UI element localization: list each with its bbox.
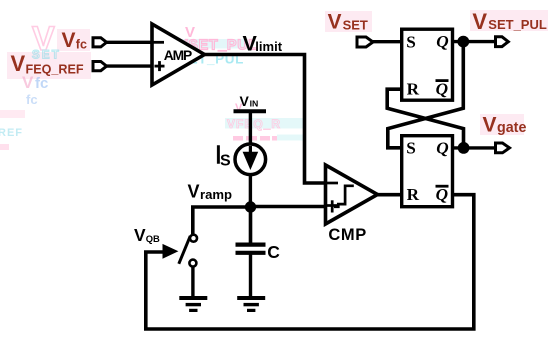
ground (capacitor) — [237, 298, 265, 310]
port V_fc — [93, 38, 107, 47]
op-amp AMP — [152, 24, 205, 85]
svg-text:V: V — [472, 9, 487, 34]
svg-text:C: C — [267, 242, 280, 262]
wire Vramp node left and down to switch — [193, 207, 251, 234]
label V_IN — [240, 93, 259, 109]
SR latch U1 — [402, 29, 453, 100]
wire V_SET to latch1 S — [373, 40, 401, 43]
svg-text:CMP: CMP — [328, 226, 366, 244]
svg-text:R: R — [407, 80, 420, 99]
wire current source to Vramp node — [249, 175, 252, 208]
arrowhead VQB — [163, 244, 179, 259]
svg-text:V: V — [134, 225, 146, 245]
svg-text:SET: SET — [343, 18, 368, 33]
svg-text:V: V — [483, 113, 497, 136]
VIN supply bar — [234, 109, 267, 113]
switch top contact — [190, 235, 197, 242]
current source I_S — [235, 144, 266, 175]
svg-text:V: V — [328, 10, 342, 33]
minus marker — [154, 41, 165, 44]
switch blade — [179, 236, 191, 264]
ghost smears left edge — [0, 110, 25, 150]
ghost text artifacts Vfc blue — [22, 73, 48, 107]
wire latch1 Q to port — [453, 40, 495, 43]
wire capacitor to ground — [249, 253, 252, 297]
svg-text:FEQ_REF: FEQ_REF — [26, 62, 84, 76]
svg-text:fc: fc — [35, 75, 48, 92]
port V_gate — [496, 143, 510, 153]
capacitor C — [236, 243, 266, 247]
svg-text:S: S — [406, 32, 416, 51]
svg-text:AMP: AMP — [164, 48, 192, 63]
label I_S — [215, 140, 231, 170]
switch bottom contact — [189, 260, 196, 267]
wire V_limit: AMP out to CMP minus input — [204, 55, 327, 184]
svg-text:Q: Q — [436, 32, 448, 51]
node junction dot Q2 — [458, 142, 470, 154]
svg-text:S: S — [406, 139, 416, 158]
ghost text artifacts top-left — [32, 20, 61, 62]
label V_gate — [483, 113, 527, 136]
wire latch2 Qbar feedback loop — [146, 195, 474, 329]
SR latch U2 — [402, 136, 453, 207]
svg-text:S: S — [220, 152, 231, 169]
svg-text:V: V — [62, 29, 76, 52]
hysteresis symbol — [334, 186, 354, 207]
plus marker — [327, 204, 337, 207]
svg-text:R: R — [407, 185, 420, 204]
port V_SET — [357, 37, 373, 47]
svg-text:V: V — [240, 93, 250, 109]
ghost band near VIN — [225, 102, 305, 141]
pink halo behind red labels — [57, 29, 90, 51]
svg-text:Q: Q — [436, 185, 448, 204]
svg-text:Q: Q — [436, 79, 448, 98]
svg-text:QB: QB — [146, 233, 160, 244]
wire latch1 R from cross — [387, 89, 463, 148]
label V_FEQ_REF — [11, 51, 84, 76]
svg-text:SET: SET — [32, 50, 61, 62]
wire V_FEQ_REF to AMP — [107, 64, 153, 67]
svg-text:fc: fc — [76, 38, 87, 52]
wire Vramp node to CMP plus input — [251, 205, 328, 209]
label V_ramp — [188, 181, 233, 202]
wire CMP out to latch2 R — [377, 193, 401, 197]
svg-text:ramp: ramp — [200, 187, 232, 202]
wire switch to ground — [191, 267, 194, 297]
svg-text:IN: IN — [250, 99, 259, 109]
port V_SET_PUL — [496, 37, 509, 47]
svg-text:SET_PUL: SET_PUL — [488, 17, 547, 32]
node junction dot Q1 — [457, 36, 469, 48]
svg-text:Q: Q — [436, 138, 448, 157]
wire latch1 Q down cross to latch2 S — [388, 42, 464, 148]
label V_QB — [134, 225, 160, 245]
wire V_fc to AMP — [107, 41, 153, 44]
plus marker — [155, 65, 165, 68]
svg-text:REF: REF — [0, 127, 23, 139]
svg-text:V: V — [11, 51, 26, 76]
port V_FEQ_REF — [93, 62, 107, 71]
svg-text:VFEQ_R: VFEQ_R — [227, 117, 281, 131]
minus marker — [327, 182, 338, 185]
wire latch2 Q to port — [453, 146, 495, 149]
label V_fc — [62, 29, 87, 52]
node V_ramp junction dot — [245, 201, 256, 212]
label V_SET — [328, 10, 368, 33]
svg-text:limit: limit — [255, 39, 282, 54]
svg-text:gate: gate — [497, 120, 526, 136]
svg-text:V: V — [188, 181, 200, 201]
ground (switch) — [179, 298, 207, 310]
ghost text artifacts near AMP output — [175, 24, 258, 67]
wire Vramp node down to capacitor — [249, 207, 253, 243]
label V_SET_PUL — [472, 9, 546, 34]
comparator CMP — [326, 165, 378, 224]
label V_limit — [243, 31, 283, 55]
svg-text:fc: fc — [26, 92, 38, 107]
wire VIN to current source — [249, 111, 252, 146]
